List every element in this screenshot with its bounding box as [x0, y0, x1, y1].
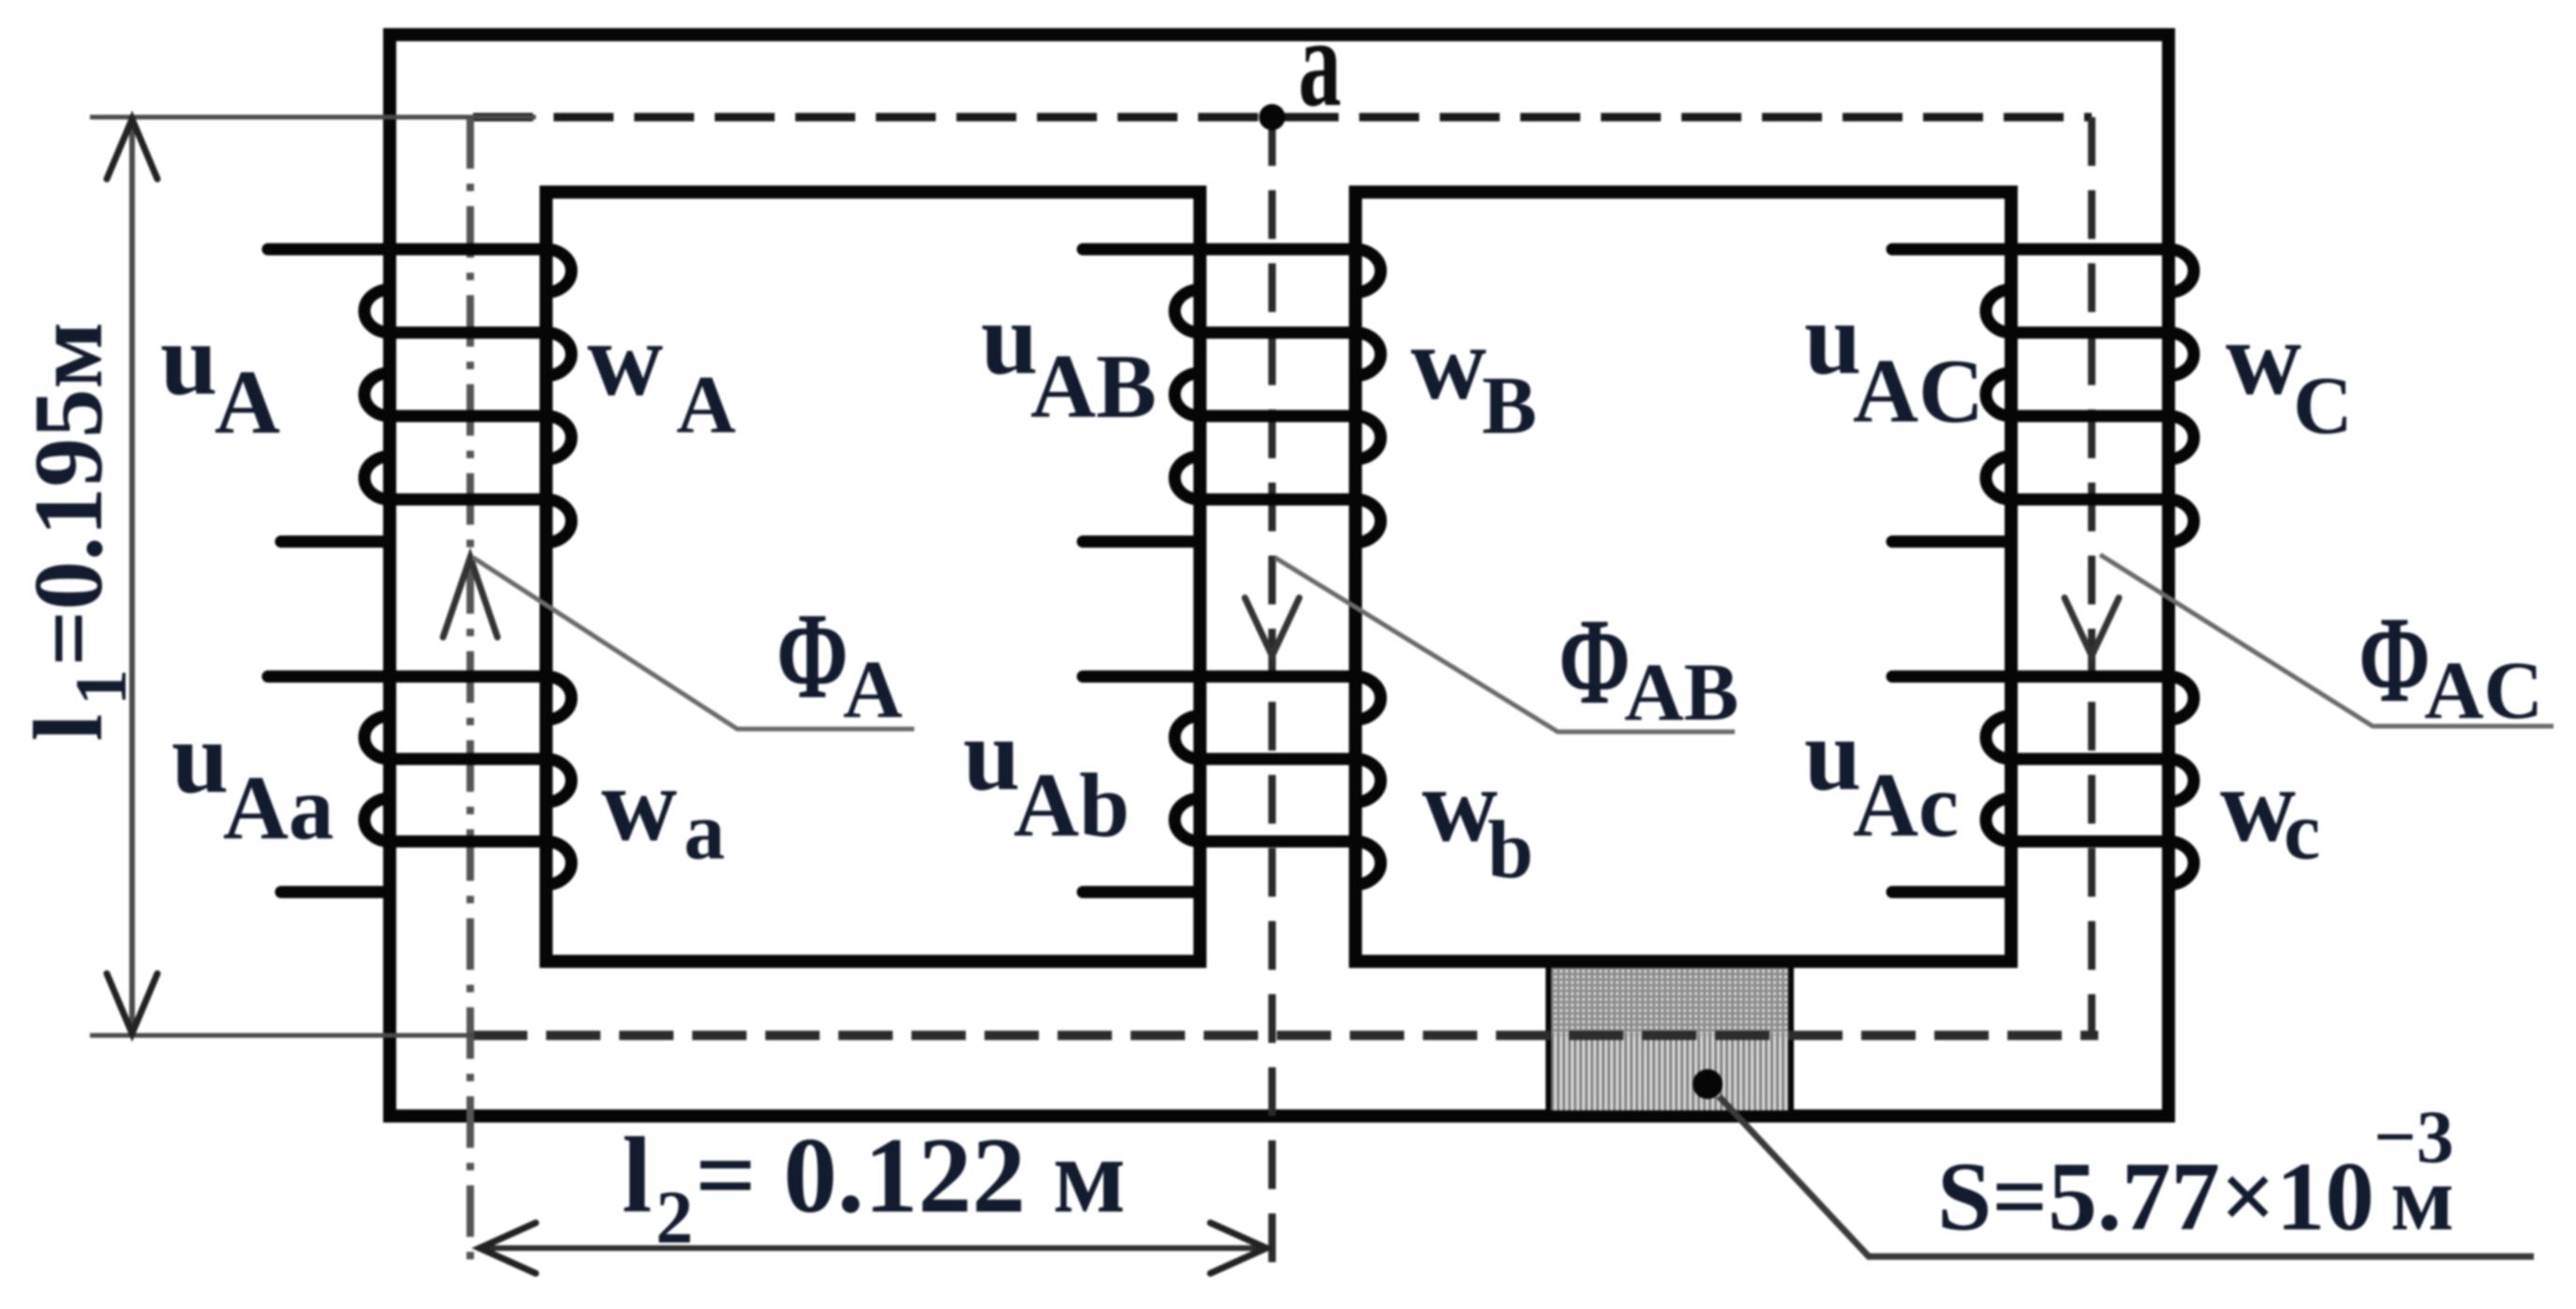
voltage label uAa [171, 700, 334, 858]
svg-text:w: w [1422, 748, 1498, 864]
svg-text:a: a [684, 786, 725, 877]
winding label wb [1422, 748, 1533, 896]
flux arrow PhiAC (down) [2065, 598, 2119, 656]
svg-text:= 0.122 м: = 0.122 м [695, 1116, 1126, 1235]
svg-text:=0.195м: =0.195м [13, 321, 123, 666]
svg-text:AB: AB [1030, 336, 1157, 437]
dimension l2 arrow right [1210, 1223, 1266, 1273]
svg-text:A: A [676, 360, 736, 451]
svg-text:w: w [587, 302, 663, 418]
winding wC/wc (right limb) upper coil [1892, 249, 2194, 543]
dimension l1 label [13, 321, 141, 741]
flux label PhiA [777, 587, 903, 736]
svg-text:l: l [13, 714, 123, 741]
svg-text:S=5.77×10: S=5.77×10 [1937, 1141, 2375, 1251]
voltage label uAc [1804, 697, 1959, 855]
winding label wC [2226, 301, 2353, 452]
svg-text:u: u [981, 281, 1038, 395]
air gap cross-section S (hatched) [1548, 968, 1791, 1110]
svg-text:u: u [171, 700, 229, 814]
svg-text:AC: AC [1853, 341, 1984, 441]
dimension l1 arrow top [107, 119, 157, 179]
svg-text:A: A [843, 645, 903, 736]
flux label PhiAB callout [1275, 558, 1735, 732]
dimension l1 extension top [90, 115, 536, 120]
node a label [1298, 0, 1341, 132]
svg-text:м: м [2391, 1146, 2454, 1250]
svg-text:c: c [2284, 786, 2320, 877]
svg-text:C: C [2293, 361, 2353, 452]
flux label PhiA callout [473, 558, 914, 729]
svg-text:1: 1 [60, 669, 141, 706]
winding label wA [587, 302, 736, 451]
winding wC/wc (right limb) lower coil [1892, 677, 2194, 892]
S label callout [1719, 1096, 2534, 1257]
flux path bottom (dashed) [473, 1031, 2098, 1040]
voltage label uA [160, 302, 280, 453]
flux label PhiAC callout [2100, 555, 2554, 726]
svg-text:b: b [1488, 805, 1533, 896]
flux label PhiAC [2359, 590, 2543, 736]
svg-text:w: w [1411, 305, 1487, 422]
flux path left limb centerline (dash-dot) [466, 117, 474, 1274]
air gap dot marker [1693, 1069, 1723, 1099]
svg-text:l: l [622, 1116, 652, 1235]
flux label PhiAB [1559, 592, 1739, 738]
winding wB/wb (middle limb) upper coil [1083, 249, 1381, 543]
node a junction dot [1259, 104, 1285, 130]
svg-text:A: A [215, 352, 280, 453]
svg-text:B: B [1482, 361, 1537, 452]
dimension l2 line [480, 1245, 1266, 1251]
winding wA/wa (left limb) upper coil [268, 249, 571, 543]
voltage label uAb [963, 697, 1130, 855]
flux arrow PhiA (up) [443, 558, 497, 637]
svg-text:u: u [963, 697, 1020, 811]
voltage label uAC [1804, 281, 1984, 441]
dimension l2 arrow left [480, 1223, 536, 1273]
core right window [1355, 192, 2011, 961]
dimension l1 extension bottom [90, 1034, 473, 1038]
flux path right limb centerline (dashed) [2088, 117, 2095, 1035]
dimension l1 line [129, 119, 135, 1034]
svg-text:Ab: Ab [1014, 755, 1130, 855]
svg-text:u: u [160, 302, 217, 416]
flux path middle limb centerline (dashed) [1268, 117, 1276, 1274]
svg-text:Aa: Aa [223, 758, 334, 858]
winding wA/wa (left limb) lower coil [268, 677, 571, 892]
svg-text:Φ: Φ [2359, 590, 2431, 728]
svg-text:Φ: Φ [1559, 592, 1631, 730]
svg-text:w: w [2226, 301, 2302, 417]
core outer edge [390, 35, 2169, 1116]
core left window [546, 192, 1200, 961]
winding label wc [2220, 748, 2320, 877]
winding label wB [1411, 305, 1537, 452]
voltage label uAB [981, 281, 1157, 437]
svg-text:Ac: Ac [1853, 755, 1959, 855]
svg-text:AB: AB [1624, 647, 1739, 738]
winding label wa [601, 747, 725, 877]
dimension l2 label [622, 1116, 1126, 1259]
svg-text:a: a [1298, 0, 1341, 132]
svg-text:AC: AC [2424, 646, 2543, 736]
dimension l1 arrow bottom [107, 974, 157, 1034]
flux path top (dashed) [473, 113, 2092, 122]
svg-text:2: 2 [656, 1177, 693, 1259]
S label [1937, 1096, 2454, 1251]
svg-text:w: w [601, 747, 677, 863]
svg-text:Φ: Φ [777, 587, 849, 724]
winding wB/wb (middle limb) lower coil [1083, 677, 1381, 892]
flux arrow PhiAB (down) [1245, 598, 1299, 656]
